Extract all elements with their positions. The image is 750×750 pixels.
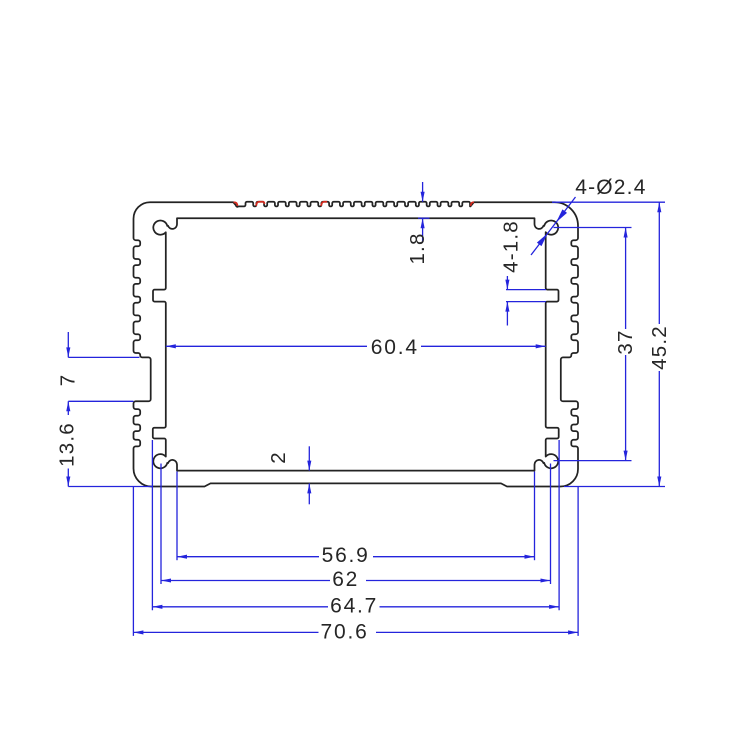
- dimension 45.2 overall height: [552, 201, 665, 203]
- svg-text:56.9: 56.9: [322, 544, 370, 567]
- extension lines for bottom dimensions: [176, 472, 178, 561]
- svg-text:62: 62: [332, 568, 359, 591]
- dimension 7 left recess height: [67, 332, 69, 357]
- inner profile with 4 screw bosses and side grooves: [153, 218, 559, 470]
- outer profile of extrusion body: [134, 202, 579, 487]
- dimension 56.9: [177, 556, 319, 558]
- svg-text:70.6: 70.6: [321, 620, 369, 643]
- svg-text:4-1.8: 4-1.8: [500, 220, 523, 273]
- dimension 13.6: [66, 401, 70, 411]
- svg-text:37: 37: [614, 329, 637, 354]
- svg-text:45.2: 45.2: [648, 325, 671, 370]
- svg-text:1.8: 1.8: [406, 232, 429, 264]
- dimension 1.8 top wall thickness: [422, 182, 424, 202]
- svg-text:60.4: 60.4: [371, 336, 419, 359]
- dimension 2 bottom wall thickness: [308, 446, 310, 470]
- red highlight marks on top serrations: [234, 202, 238, 206]
- svg-text:4-Ø2.4: 4-Ø2.4: [575, 176, 646, 199]
- dimension 70.6: [133, 631, 318, 633]
- svg-text:7: 7: [56, 374, 79, 387]
- dimension 64.7: [152, 606, 328, 608]
- svg-text:13.6: 13.6: [56, 422, 79, 467]
- svg-text:64.7: 64.7: [330, 594, 378, 617]
- dimension 62: [161, 580, 330, 582]
- dimension 37: [554, 227, 632, 229]
- dimension 60.4 inner width: [166, 345, 367, 347]
- svg-text:2: 2: [267, 451, 290, 464]
